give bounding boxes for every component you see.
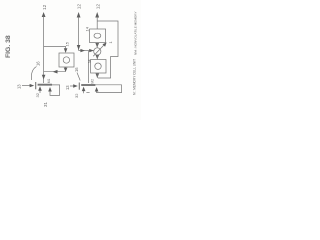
wire A down arrowhead into transistor M1 [42,75,46,80]
svg-text:12: 12 [96,4,102,10]
legend M : MEMORY CELL UNIT (rotated, right edge) [133,59,137,95]
circle inside box M [95,63,101,69]
svg-text:16: 16 [36,61,41,66]
svg-text:12: 12 [77,4,83,10]
M1 source stub with up arrowhead [39,89,41,93]
svg-text:32: 32 [74,93,79,98]
wire C top arrowhead [95,12,99,18]
wire: horizontal from wire B to memory element [79,50,94,52]
label 32 (left) [35,92,40,97]
gate wire with right arrowhead (M2) [70,85,74,87]
svg-text:1: 1 [108,41,113,44]
svg-text:13: 13 [65,85,70,90]
svg-text:NM : NONVOLATILE MEMORY: NM : NONVOLATILE MEMORY [134,11,138,55]
transistor M1 channel [38,84,52,86]
label 31 dash (right) [86,92,89,94]
svg-text:M1: M1 [47,79,51,84]
box M (current source) [91,60,106,74]
svg-text:31: 31 [43,101,48,107]
transistor M2 channel [81,84,95,86]
wire: branch from wire A to current source I1 [44,47,66,50]
arrowhead into box I1 [64,48,68,53]
M2 source stub with up arrowhead [83,89,85,93]
svg-text:32: 32 [35,92,40,97]
svg-text:15: 15 [65,41,70,46]
svg-text:12: 12 [42,4,48,10]
svg-text:13: 13 [17,84,22,89]
svg-text:FIG. 38: FIG. 38 [5,35,12,58]
wire: tee from I1 back to wire A [44,71,66,73]
wire A (left vertical bit line) [43,16,45,83]
M2 drain loop wire [95,85,121,93]
label 1 (memory element numeral) [108,41,113,44]
label 13 (left word line) [17,84,22,89]
svg-text:M : MEMORY CELL UNIT: M : MEMORY CELL UNIT [133,59,137,95]
label 14 (box D numeral) [85,26,90,31]
wire B (middle vertical line) [78,17,80,51]
M2 designator [91,79,95,84]
M1 drain loop wire [50,85,60,96]
leader line (right) [77,73,80,81]
label 16 with leader to gate (left transistor) [36,61,41,66]
label M (memory cell) [87,59,92,63]
node label 12 (middle line) [77,4,83,10]
down arrowhead below box D [95,43,99,48]
leader curve (left) [31,67,36,81]
label 16 with leader to gate (right transistor) [74,67,79,72]
label 31 (below M1) [43,101,48,107]
label 32 (right) [74,93,79,98]
node label 12 (right bit line) [96,4,102,10]
wire B top arrowhead [77,12,81,18]
label 15 (current source numeral) [65,41,70,46]
svg-text:14: 14 [85,26,90,31]
current source I1 circle [63,57,69,63]
down arrowhead below box M [96,73,100,78]
current source I1 box [59,53,74,67]
node label 12 (left bit line) [42,4,48,10]
up arrowhead into M2 channel (loop) [95,87,99,92]
transistor M1 gate bar [35,82,37,89]
label 13 (right word line) [65,85,70,90]
down arrowhead into box M [96,55,100,60]
wire B lower arrowhead [77,45,81,50]
transistor M2 gate bar [78,83,80,90]
M1 designator [47,79,51,84]
gate wire with right arrowhead (M1) [22,85,30,87]
ellipse inside box D [94,33,101,38]
memory element NM (variable resistor circle) [94,48,101,55]
wire A top arrowhead [42,12,46,17]
svg-text:16: 16 [74,67,79,72]
wire below box I1 with down arrowhead [65,67,67,68]
left arrowhead on tee wire [53,70,58,74]
up arrowhead into M1 channel (loop) [48,87,52,92]
wire: feedback branch from wire C around right side [97,21,118,78]
wire C (right vertical line into box D) [96,17,98,30]
box D (write circuit) [90,29,106,43]
variable-resistance diagonal arrow [93,45,104,57]
figure title FIG. 38 [5,35,12,58]
legend NM : NONVOLATILE MEMORY (rotated, right edge) [134,11,138,55]
right arrowhead into memory element [89,49,94,52]
wire: junction down to transistor M2 [88,51,90,83]
right arrowhead after wire B [80,49,85,52]
svg-text:M2: M2 [91,79,95,84]
